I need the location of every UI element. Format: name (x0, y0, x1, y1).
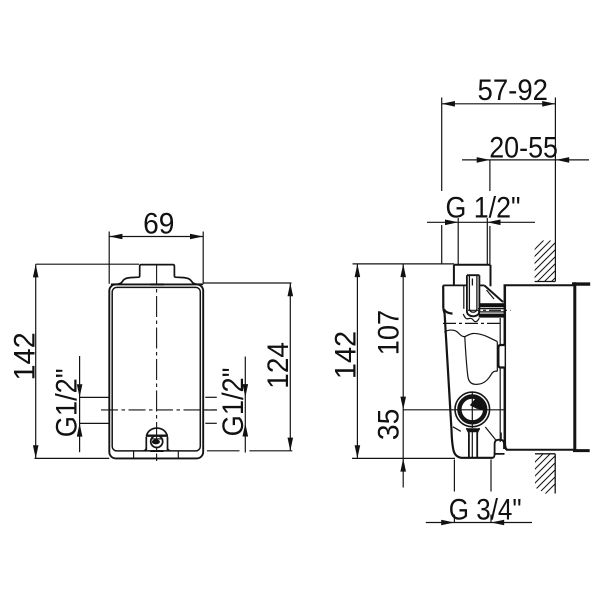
stem walls (466, 429, 480, 458)
dimension G1/2 right (242, 356, 248, 452)
right view: top extension line (353, 263, 455, 265)
left view: top hat block (140, 265, 175, 275)
svg-text:20-55: 20-55 (489, 131, 558, 164)
svg-text:57-92: 57-92 (478, 74, 549, 107)
valve body: interior vertical line (463, 286, 465, 309)
svg-text:G1/2": G1/2" (50, 368, 83, 437)
left view: screw head (151, 435, 163, 447)
label 142 right (329, 331, 362, 379)
svg-text:G 3/4": G 3/4" (449, 494, 522, 527)
screw channel outer (467, 275, 480, 316)
stem black neck (466, 428, 480, 432)
valve body: left outline (443, 285, 493, 457)
left view: screw housing arch (143, 428, 170, 451)
label G 3/4 bottom (449, 494, 522, 527)
port circle wedge (470, 399, 483, 411)
body centerline dash-dot (443, 322, 501, 324)
label G 1/2 top (446, 192, 521, 225)
svg-text:35: 35 (372, 409, 405, 440)
valve body: neck hook curve (444, 310, 453, 314)
flush box left inner line (499, 318, 501, 442)
label 35 (372, 409, 405, 440)
left view: left port ticks (80, 397, 109, 423)
svg-text:69: 69 (143, 207, 174, 240)
left view: inner housing rounded rect (112, 287, 200, 451)
flush box top stub (572, 282, 590, 285)
dimension 142 right (355, 264, 361, 459)
port circle crosshair (456, 392, 504, 428)
label 57-92 (478, 74, 549, 107)
left view: right port ticks (205, 397, 217, 423)
dimension 69 (109, 231, 203, 283)
black band lower (479, 314, 505, 318)
label G1/2 right (217, 368, 250, 437)
wall hatch top (524, 224, 560, 323)
svg-text:124: 124 (262, 342, 295, 389)
flush box right edge (573, 282, 576, 451)
dimension G 1/2 top (427, 218, 535, 264)
contour diagonal to dome (485, 427, 496, 440)
band centerline dash-dot (468, 309, 511, 311)
left view: screw slot fill (152, 439, 160, 444)
dimension G 3/4 bottom (426, 460, 532, 526)
label 69 (143, 207, 174, 240)
left view: bottom band tick right (177, 451, 179, 459)
band thread lines (478, 309, 504, 312)
contour tick left of stem (453, 427, 461, 432)
flush box left edge (505, 285, 507, 449)
valve body: flange shoulder (443, 284, 484, 286)
dimension 107 (400, 264, 456, 488)
black band upper (479, 303, 505, 307)
left view: horizontal centerline (101, 409, 217, 411)
valve body: top port (454, 265, 491, 287)
svg-text:142: 142 (329, 331, 362, 379)
left view: vertical centerline (156, 264, 158, 461)
right view: bottom extension line (352, 457, 455, 459)
port circle ring (455, 392, 490, 427)
label 142 left (8, 332, 41, 380)
wall face line top (554, 98, 556, 282)
dimension 35 (400, 458, 406, 471)
left view: bottom edge black bar (150, 450, 163, 452)
left view: bottom band tick left (133, 451, 135, 459)
body interior pocket (465, 337, 498, 384)
dimension 142 left (33, 264, 139, 458)
bottom dome foot (493, 440, 505, 458)
label 20-55 (489, 131, 558, 164)
valve body: inner diagonal shadow (487, 290, 495, 299)
dimension 20-55 (462, 157, 589, 264)
screw channel inner (469, 276, 477, 313)
left view: top edge black parting bar (150, 283, 164, 285)
dimension 57-92 (442, 98, 556, 265)
dimension 124 (203, 283, 293, 451)
dimension G1/2 left (77, 356, 83, 452)
left view: hat left flare (111, 274, 140, 285)
label 107 (372, 310, 405, 355)
label G1/2 left (50, 368, 83, 437)
flush box outline (503, 285, 573, 450)
label 124 (262, 342, 295, 389)
body interior wave upper (444, 330, 497, 341)
svg-text:107: 107 (372, 310, 405, 355)
left view: hat right flare (174, 274, 203, 285)
left view: outer housing rounded rect (109, 284, 203, 458)
valve body: right diagonal to box (484, 285, 503, 302)
pocket wavy line under channel (463, 314, 479, 322)
svg-text:G1/2": G1/2" (217, 368, 250, 437)
svg-text:142: 142 (8, 332, 41, 380)
svg-text:G 1/2": G 1/2" (446, 192, 521, 225)
dome vertical tick (500, 433, 502, 441)
wall hatch bottom (524, 437, 560, 515)
stem centerline (471, 432, 473, 458)
flush box bottom stub (573, 449, 590, 452)
box latch clip (498, 345, 504, 368)
